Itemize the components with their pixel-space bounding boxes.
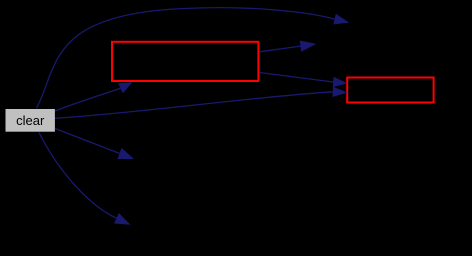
- svg-text:clear: clear: [16, 113, 45, 128]
